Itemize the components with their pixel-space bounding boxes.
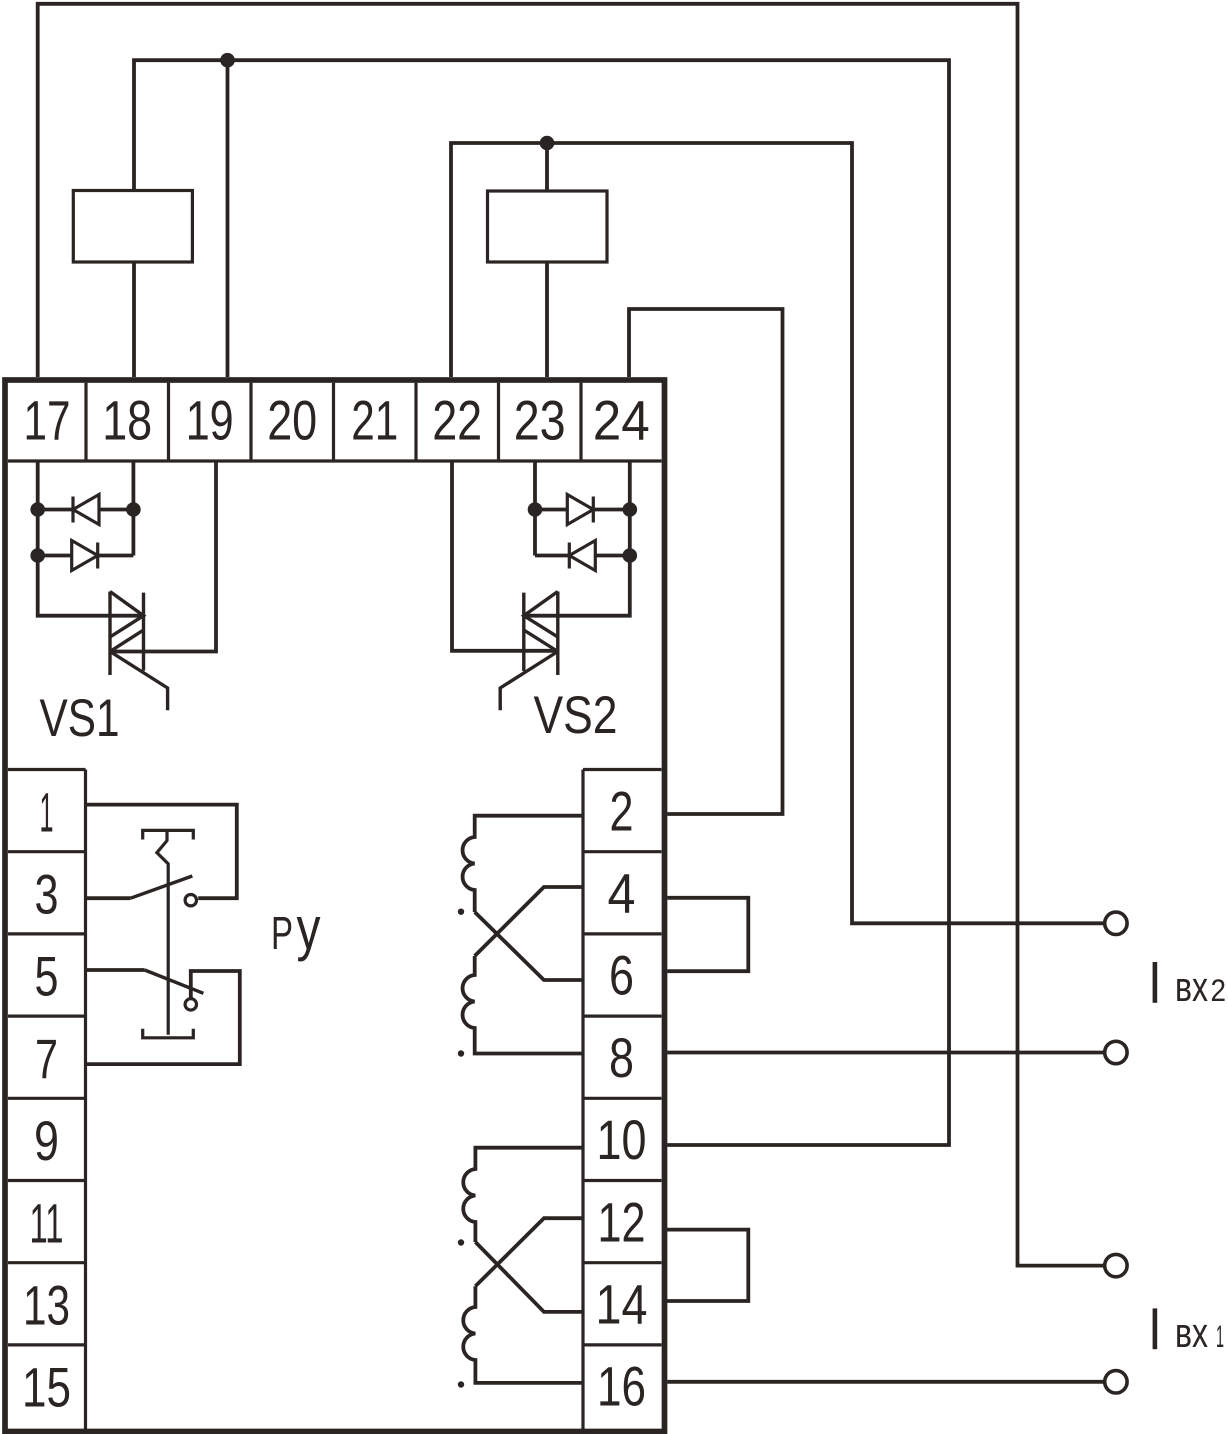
T1 W1 polarity dot [458,909,464,915]
wire: upper diode row VS2 [535,508,630,512]
svg-text:16: 16 [597,1355,646,1418]
relay coil K2 box [488,191,608,262]
svg-text:1: 1 [1216,1318,1224,1354]
wire: lower diode row VS2 [535,554,630,558]
wire: terminal 17 down with feed to triac VS1 [38,461,144,616]
wire: junction down to terminal 19 [226,60,230,377]
wire: terminal 16 to Ivx1 lower circle [667,1380,1105,1384]
wire: triac VS1 to terminal 19 [110,461,216,652]
svg-text:21: 21 [351,389,398,452]
external terminal circle Ivx1-b [1105,1371,1127,1393]
T1 W2 coil and wire to terminal 8 [463,956,583,1054]
switch PU upper blade [131,876,193,898]
svg-text:2: 2 [610,779,634,842]
triac VS2 gate [500,652,558,711]
transformer T1 winding W1: terminal 2 to start [463,816,583,912]
svg-text:17: 17 [24,389,71,452]
node: terminal17/VD2 junction [30,548,45,563]
wire: terminal 24 up and over, down to terminal 2 [629,309,783,814]
diode VD2 (anode left, cathode right) [72,541,98,571]
node: terminal23/VD3 junction [528,502,543,517]
transformer T2 winding W1: terminal 10 to start [463,1148,583,1242]
wire: T2 W1 end diagonal to terminal 14 [475,1242,583,1312]
relay coil K1 box [73,191,192,263]
right terminal column cells 2-16 [583,770,662,1430]
wire: terminal 8 to Ivx2 lower circle [667,1051,1105,1055]
left terminal column cells 1-15 [8,770,86,1430]
wire: terminal 18 down to diode rows [131,461,135,556]
wire: lower diode row VS1 [38,554,134,558]
svg-text:8: 8 [609,1026,634,1089]
diode VD3 (anode left, cathode right) [567,495,593,525]
svg-text:11: 11 [30,1191,64,1254]
external terminal circle Ivx2-b [1105,1041,1127,1063]
wire: triac VS2 to terminal 22 [452,461,558,651]
wire: terminal 1 loop to switch contact [86,805,237,899]
switch PU lower rest bracket [143,1029,194,1038]
wire: coil K1 to terminal 18 [132,262,136,377]
wire: bracket joining terminals 12 and 14 [665,1230,749,1301]
switch PU lower blade [145,970,204,993]
T2 W2 coil and wire to terminal 16 [463,1286,583,1383]
switch PU actuator link [157,830,168,1034]
device outline box [5,380,665,1432]
transformer T1 winding W2: terminal 4 diagonal to start [475,887,583,956]
svg-text:20: 20 [267,389,317,452]
wire: bracket joining terminals 4 and 6 [667,898,748,971]
node: terminal18/VD1 junction [126,502,141,517]
switch PU upper rest bracket [143,830,194,839]
node: terminal24/VD4 junction [623,548,638,563]
triac VS1 gate [110,652,168,711]
node: terminal17/VD1 junction [30,502,45,517]
svg-text:вх: вх [1175,1309,1208,1356]
diode VD1 (anode right, cathode left) [73,495,99,525]
wire: terminal 24 down with feed to triac VS2 [524,461,630,616]
wire: terminal 22 up, rail y=143, down to Ivx2 upper circle [451,143,1105,923]
switch PU fixed contact circle upper [185,895,196,906]
svg-text:19: 19 [186,389,234,452]
svg-text:13: 13 [23,1274,70,1337]
junction node on y=59 rail above terminal 19 [220,53,235,68]
svg-text:вх: вх [1175,963,1208,1010]
svg-text:10: 10 [597,1108,647,1171]
wire: terminal 3 stub [86,896,131,900]
external terminal circle Ivx1-a [1105,1254,1127,1276]
external terminal circle Ivx2-a [1105,912,1127,934]
svg-text:23: 23 [514,389,566,452]
label Ivx1 current bar [1153,1308,1158,1349]
transformer T2 winding W2: terminal 12 diagonal to start [475,1218,583,1286]
svg-text:6: 6 [609,944,634,1007]
terminal strip cells 17-24 [8,383,662,461]
wire: terminal 23 down to diode rows [533,461,537,556]
svg-text:7: 7 [35,1027,58,1090]
wire: terminal 5 stub [86,968,145,972]
wire: upper diode row VS1 [38,508,134,512]
svg-text:14: 14 [596,1273,648,1336]
svg-text:Р: Р [271,907,293,959]
junction node on y=143 rail above coil K2 [540,136,555,151]
T2 W2 polarity dot [458,1381,464,1387]
wire: T1 W1 end diagonal to terminal 6 [475,912,583,980]
wire: junction down to coil K2 [545,143,549,191]
T2 W1 polarity dot [458,1239,464,1245]
node: terminal24/VD3 junction [623,502,638,517]
svg-text:15: 15 [22,1356,71,1419]
svg-text:22: 22 [432,389,482,452]
svg-text:VS2: VS2 [534,686,618,745]
label Ivx2 current bar [1153,962,1158,1003]
wire: coil K1 top rail y=59 over to right, down to terminal 10 [134,60,949,1145]
svg-text:12: 12 [598,1190,646,1253]
triac VS1 [110,592,144,676]
svg-text:18: 18 [102,389,152,452]
svg-text:24: 24 [593,389,650,452]
svg-text:4: 4 [608,862,636,925]
svg-text:9: 9 [34,1109,59,1172]
svg-text:2: 2 [1211,972,1227,1008]
triac VS2 [524,592,558,676]
wire: coil K2 to terminal 23 [545,262,549,377]
switch PU fixed contact circle lower [185,999,196,1010]
diode VD4 (anode right, cathode left) [569,541,595,571]
svg-text:VS1: VS1 [40,689,120,748]
T1 W2 polarity dot [458,1050,464,1056]
svg-text:1: 1 [40,780,54,843]
wire: terminal 17 up, top rail, right side down to Ivx1 circle [38,4,1105,1266]
svg-text:y: y [297,895,321,962]
wire: lower contact loop to terminal 7 [86,971,240,1064]
svg-text:3: 3 [35,863,59,926]
svg-text:5: 5 [35,945,59,1008]
